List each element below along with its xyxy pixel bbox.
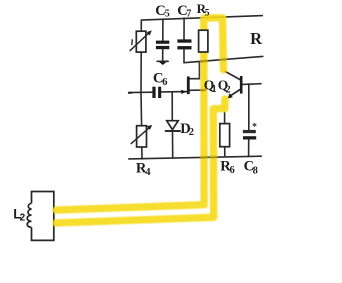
svg-text:7: 7 — [186, 8, 191, 19]
svg-text:4: 4 — [145, 167, 151, 178]
svg-text:8: 8 — [253, 165, 258, 176]
svg-text:6: 6 — [230, 165, 235, 176]
svg-text:*: * — [252, 123, 257, 133]
svg-text:2: 2 — [189, 127, 194, 138]
svg-text:6: 6 — [162, 77, 167, 88]
svg-text:R: R — [250, 29, 263, 48]
svg-text:2: 2 — [20, 213, 26, 224]
svg-text:2: 2 — [226, 84, 231, 95]
svg-text:5: 5 — [165, 9, 170, 20]
svg-text:5: 5 — [205, 9, 210, 19]
svg-text:1: 1 — [212, 84, 217, 95]
